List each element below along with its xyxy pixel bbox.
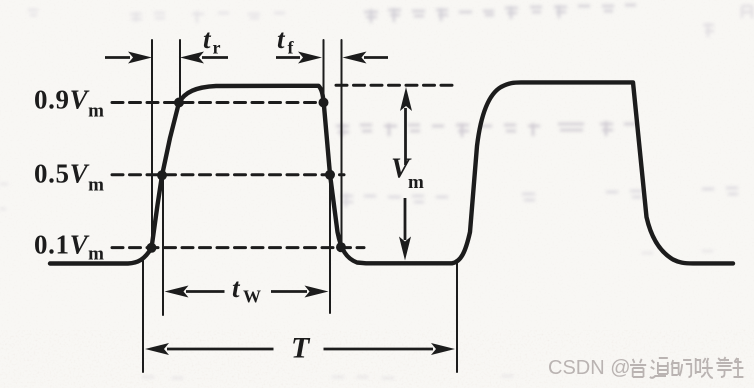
arrow T double horizontal <box>145 343 455 355</box>
node line L3 90% falling <box>323 40 325 103</box>
svg-text:W: W <box>243 287 261 307</box>
arrow tW double horizontal <box>165 286 329 298</box>
node line L1 10% rising <box>151 40 153 248</box>
node line tW right <box>329 176 331 313</box>
wire dashed Vm top level <box>336 84 456 87</box>
node line tW left <box>162 176 164 315</box>
node dot falling 50% <box>325 170 335 180</box>
svg-text:CSDN @: CSDN @ <box>548 357 631 379</box>
node line T right <box>456 263 458 372</box>
wire waveform pulse train <box>50 82 733 263</box>
node line T left <box>142 259 144 372</box>
svg-text:f: f <box>288 38 295 58</box>
arrow tr pointing left at L2 <box>180 52 228 64</box>
node dot rising 10% <box>147 243 157 253</box>
wire dashed 0.5Vm level <box>112 173 344 176</box>
node dot falling 90% <box>319 98 329 108</box>
arrow right outer toward L4 <box>343 52 389 64</box>
svg-text:m: m <box>408 172 424 193</box>
wire dashed 0.1Vm level <box>112 246 364 249</box>
arrow Vm vertical double <box>399 87 412 261</box>
svg-text:T: T <box>291 332 311 365</box>
watermark CSDN <box>548 357 743 379</box>
arrow tf pointing right at L3 <box>276 52 322 64</box>
arrow left outer toward L1 <box>105 52 152 64</box>
node dot rising 50% <box>157 170 167 180</box>
node line L4 10% falling <box>341 40 343 248</box>
wire dashed 0.9Vm level <box>112 101 323 104</box>
node dot falling 10% <box>336 242 346 252</box>
svg-text:r: r <box>213 38 221 58</box>
node line L2 90% rising <box>179 40 181 103</box>
node dot rising 90% <box>174 98 184 108</box>
watermark CJK strokes <box>630 357 743 378</box>
